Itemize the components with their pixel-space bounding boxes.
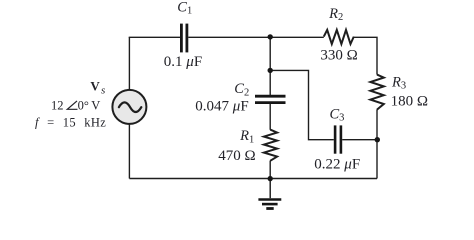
capacitor C3 plates: [335, 125, 341, 153]
ground symbol: [258, 179, 281, 209]
wire center-upper: node A down to C2: [269, 37, 271, 95]
wire branch: C3 right plate to node C: [342, 139, 377, 141]
svg-text:0°: 0°: [78, 99, 89, 113]
source sine wave: [119, 102, 141, 112]
wire right-lower: R3 to bottom-right corner: [376, 110, 378, 179]
resistor R2 zigzag: [324, 30, 354, 44]
node C junction dot: [375, 137, 380, 142]
capacitor C2 plates: [255, 96, 286, 102]
svg-text:C2: C2: [234, 81, 249, 98]
svg-text:R1: R1: [239, 128, 254, 145]
svg-text:C1: C1: [177, 0, 192, 17]
svg-text:R3: R3: [391, 74, 406, 91]
wire center-mid: C2 to R1: [269, 103, 271, 130]
svg-text:Vs: Vs: [90, 78, 105, 96]
wire top-right: R2 to corner down to R3: [354, 37, 377, 74]
svg-text:0.047 μF: 0.047 μF: [195, 98, 248, 114]
wire top-left: source lead up to C1: [129, 36, 180, 39]
node A junction dot: [268, 34, 273, 39]
svg-text:12: 12: [51, 99, 64, 113]
svg-text:0.1 μF: 0.1 μF: [164, 54, 202, 70]
node D bottom junction dot: [268, 176, 273, 181]
capacitor C1 plates: [181, 24, 187, 53]
svg-text:330 Ω: 330 Ω: [320, 48, 357, 64]
node B junction dot: [268, 68, 273, 73]
wire left-upper: source top lead: [128, 37, 130, 90]
source Vs circle: [112, 90, 146, 124]
svg-text:V: V: [91, 99, 100, 113]
wire top-mid: C1 to node A to R2: [188, 36, 323, 38]
svg-text:0.22 μF: 0.22 μF: [314, 157, 360, 173]
svg-text:R2: R2: [328, 6, 343, 23]
angle symbol: [67, 101, 77, 109]
wire branch: node B right then down to C3: [270, 70, 334, 139]
svg-text:470 Ω: 470 Ω: [218, 148, 255, 164]
svg-text:f = 15 kHz: f = 15 kHz: [35, 116, 106, 130]
resistor R1 zigzag: [264, 130, 277, 161]
svg-text:180 Ω: 180 Ω: [391, 94, 428, 110]
resistor R3 zigzag: [370, 75, 383, 110]
wire center-lower: R1 to bottom node: [269, 161, 271, 179]
svg-text:C3: C3: [330, 106, 345, 123]
wire left-lower: source bottom lead: [128, 124, 130, 179]
wire bottom: [129, 178, 377, 180]
